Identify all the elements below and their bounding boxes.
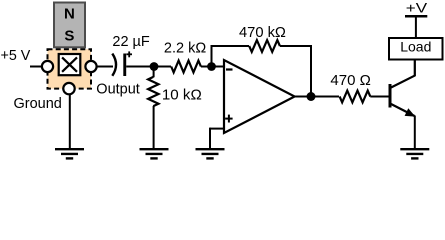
wire node A to R 2.2k — [154, 66, 171, 68]
wire node C to R 470 — [311, 96, 339, 98]
label Load — [400, 39, 431, 55]
wire node A down to R 10k — [153, 67, 155, 78]
wire R 470 to transistor base — [370, 96, 388, 98]
label 22 uF — [112, 34, 150, 50]
ground (sensor) — [55, 149, 84, 158]
label 470 kOhm — [239, 25, 286, 41]
svg-text:470 kΩ: 470 kΩ — [239, 25, 286, 41]
hall sensor U1 dashed package — [48, 49, 92, 88]
wire feedback top left segment — [211, 45, 250, 47]
svg-text:Load: Load — [400, 39, 431, 55]
op-amp U2 triangle — [224, 60, 295, 133]
+V power rail bar — [405, 15, 427, 18]
pin terminal left (+5V) — [42, 61, 53, 72]
magnet body — [54, 3, 85, 48]
wire feedback right vertical — [310, 46, 312, 97]
resistor 10 kOhm — [148, 77, 158, 106]
pin terminal right (output) — [85, 61, 96, 72]
transistor Q1 emitter with arrow — [391, 104, 416, 148]
capacitor polarity plus sign — [126, 51, 132, 57]
label +V — [406, 0, 428, 16]
wire node B to op-amp inverting input — [212, 66, 224, 68]
wire +V to load — [415, 16, 417, 38]
svg-text:+5 V: +5 V — [1, 48, 31, 64]
svg-text:10 kΩ: 10 kΩ — [162, 88, 202, 104]
wire feedback left vertical — [211, 46, 213, 67]
label Output — [96, 81, 140, 97]
magnet N label — [64, 6, 75, 23]
wire capacitor to node A — [126, 66, 154, 68]
ground (10k resistor) — [140, 149, 169, 158]
op-amp inverting pin minus sign — [226, 68, 233, 70]
wire op-amp output to node C — [295, 96, 312, 98]
op-amp non-inverting pin plus sign — [225, 115, 233, 123]
label +5 V — [1, 48, 31, 64]
svg-text:22 µF: 22 µF — [112, 34, 150, 50]
wire +5V lead — [30, 66, 42, 68]
svg-text:+V: +V — [406, 0, 428, 16]
svg-text:2.2 kΩ: 2.2 kΩ — [164, 41, 206, 57]
ground (op-amp) — [196, 149, 225, 158]
resistor 470 Ohm — [340, 91, 371, 103]
ground (transistor emitter) — [400, 149, 429, 158]
node C junction dot — [307, 92, 316, 101]
load box — [389, 38, 443, 60]
capacitor C1 22uF curved plate — [112, 54, 116, 76]
wire op-amp non-inverting input — [210, 128, 224, 148]
svg-text:470 Ω: 470 Ω — [330, 72, 370, 89]
transistor Q1 collector — [391, 60, 416, 88]
resistor 2.2 kOhm — [171, 61, 201, 73]
node B junction dot — [207, 62, 216, 71]
wire load to collector — [414, 60, 416, 77]
wire feedback top right segment — [280, 45, 312, 47]
svg-text:Ground: Ground — [14, 96, 62, 112]
wire sensor output to capacitor — [97, 66, 113, 68]
label 470 Ohm — [330, 72, 370, 89]
svg-text:N: N — [64, 6, 75, 23]
label 10 kOhm — [162, 88, 202, 104]
wire R 10k to ground — [153, 106, 155, 148]
capacitor C1 straight plate — [123, 54, 126, 77]
svg-text:Output: Output — [96, 81, 140, 97]
wire R 2.2k to node B — [201, 66, 212, 68]
svg-text:S: S — [64, 27, 74, 44]
wire sensor bottom to ground — [69, 94, 71, 148]
hall element symbol — [59, 54, 81, 75]
resistor 470 kOhm — [249, 40, 280, 52]
magnet S label — [64, 27, 74, 44]
transistor Q1 base bar — [389, 84, 392, 108]
label 2.2 kOhm — [164, 41, 206, 57]
pin terminal bottom (ground) — [63, 83, 74, 94]
node A junction dot — [150, 62, 159, 71]
label Ground — [14, 96, 62, 112]
